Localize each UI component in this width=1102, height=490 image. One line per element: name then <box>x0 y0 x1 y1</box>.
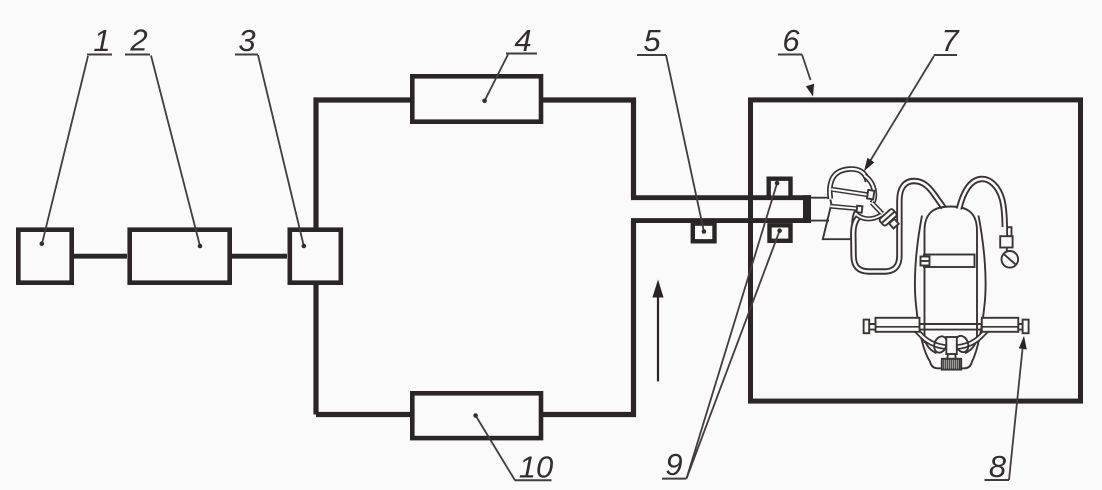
underline 5 <box>637 54 666 56</box>
wire tube bottom line <box>631 218 811 223</box>
mask lower strap <box>830 206 857 208</box>
underline 6 <box>778 54 802 56</box>
lower strap buckle <box>857 206 863 213</box>
svg-text:9: 9 <box>665 447 682 482</box>
box 2 <box>130 230 230 283</box>
dot box4 <box>482 99 487 104</box>
box 10 <box>412 393 541 438</box>
box 5 sensor <box>693 224 715 242</box>
right hose ring <box>953 334 970 354</box>
flow arrow up <box>652 280 663 382</box>
leader 3 <box>258 55 304 246</box>
svg-text:4: 4 <box>514 23 531 58</box>
dot box9 upper <box>775 181 780 186</box>
center valve block <box>946 337 957 354</box>
dot box9 lower <box>777 228 782 233</box>
leader dots <box>40 99 782 418</box>
mask neck <box>823 204 859 240</box>
svg-text:2: 2 <box>129 23 147 58</box>
mask visor band <box>831 189 867 195</box>
casing bell outline <box>915 216 986 369</box>
rod left cap <box>864 320 870 334</box>
svg-text:1: 1 <box>93 23 110 58</box>
filter cartridge <box>879 208 898 226</box>
frame band to cartridge <box>872 203 882 214</box>
leader 9 lower <box>687 231 780 479</box>
underline 9 <box>662 478 687 480</box>
dot box1 <box>40 241 45 246</box>
wire loop top <box>316 100 634 415</box>
svg-text:6: 6 <box>782 23 800 58</box>
underline 3 <box>235 54 258 56</box>
underline 1 <box>87 54 112 56</box>
underline 7 <box>934 54 957 56</box>
wire tube top line <box>631 195 811 200</box>
right grip <box>982 318 1019 332</box>
dot box5 <box>702 229 707 234</box>
box 9 sensor lower <box>770 225 791 241</box>
leader 5 <box>666 55 704 232</box>
svg-text:3: 3 <box>238 23 255 58</box>
right manifold hose <box>957 327 1002 347</box>
underline 2 <box>125 54 150 56</box>
rod line through grips <box>876 326 1019 328</box>
cylinder band <box>924 255 975 268</box>
leader 8 <box>1009 349 1023 480</box>
tube end cap <box>803 195 811 223</box>
gauge needle <box>1004 254 1016 264</box>
chin strap to cartridge <box>857 215 882 219</box>
underline 4 <box>506 53 537 55</box>
leader 9 upper <box>687 183 778 478</box>
arrowhead 8 <box>1019 336 1027 350</box>
leader arrowheads <box>806 84 1027 350</box>
dot box10 <box>473 413 478 418</box>
cylinder funnel <box>925 339 978 353</box>
box 1 <box>18 230 71 283</box>
cartridge nub <box>889 219 899 229</box>
ribbed cap <box>942 359 961 370</box>
svg-text:8: 8 <box>989 449 1007 484</box>
box 9 sensor upper <box>769 179 791 198</box>
dome-neck join <box>830 200 831 204</box>
box 3 <box>290 230 341 283</box>
leader lines <box>42 55 1023 481</box>
wire link box2-box3 <box>232 254 287 259</box>
dot box3 <box>302 244 307 249</box>
gauge stem <box>1006 248 1008 252</box>
leader 7 <box>870 56 935 162</box>
dot box2 <box>198 244 203 249</box>
regulator block <box>1000 236 1012 247</box>
leader 2 <box>151 56 200 247</box>
apparatus artwork group <box>811 169 1029 370</box>
leader 1 <box>42 56 88 244</box>
svg-text:5: 5 <box>643 23 661 58</box>
leader 10 <box>476 416 515 481</box>
valve neck <box>947 354 956 359</box>
wire link box1-box2 <box>74 254 127 259</box>
band buckle <box>921 257 930 266</box>
leader 6 <box>802 55 811 81</box>
mask dome <box>830 169 868 199</box>
arrowhead 7 <box>864 158 874 171</box>
thin tube-to-mask connectors <box>811 198 831 221</box>
cylinder <box>925 207 978 344</box>
box 4 <box>412 76 541 121</box>
leader 4 <box>485 55 508 101</box>
right hose to regulator <box>959 179 1005 227</box>
mask right frame band <box>865 176 875 204</box>
pressure gauge <box>1002 251 1019 268</box>
underline 10 <box>515 479 552 481</box>
left grip <box>876 318 920 332</box>
arrowhead 6 <box>806 84 814 97</box>
bottom rod <box>866 324 1026 330</box>
underline 8 <box>985 479 1010 481</box>
mask breathing hose <box>853 181 943 272</box>
label underlines <box>87 54 1009 481</box>
svg-text:7: 7 <box>941 23 960 58</box>
regulator stub <box>1007 227 1011 236</box>
box 6 chamber <box>751 100 1081 401</box>
visor buckle <box>867 190 874 199</box>
rod right cap <box>1023 320 1029 334</box>
svg-text:10: 10 <box>519 450 553 485</box>
left manifold hose <box>901 327 946 347</box>
left hose ring <box>932 335 949 355</box>
